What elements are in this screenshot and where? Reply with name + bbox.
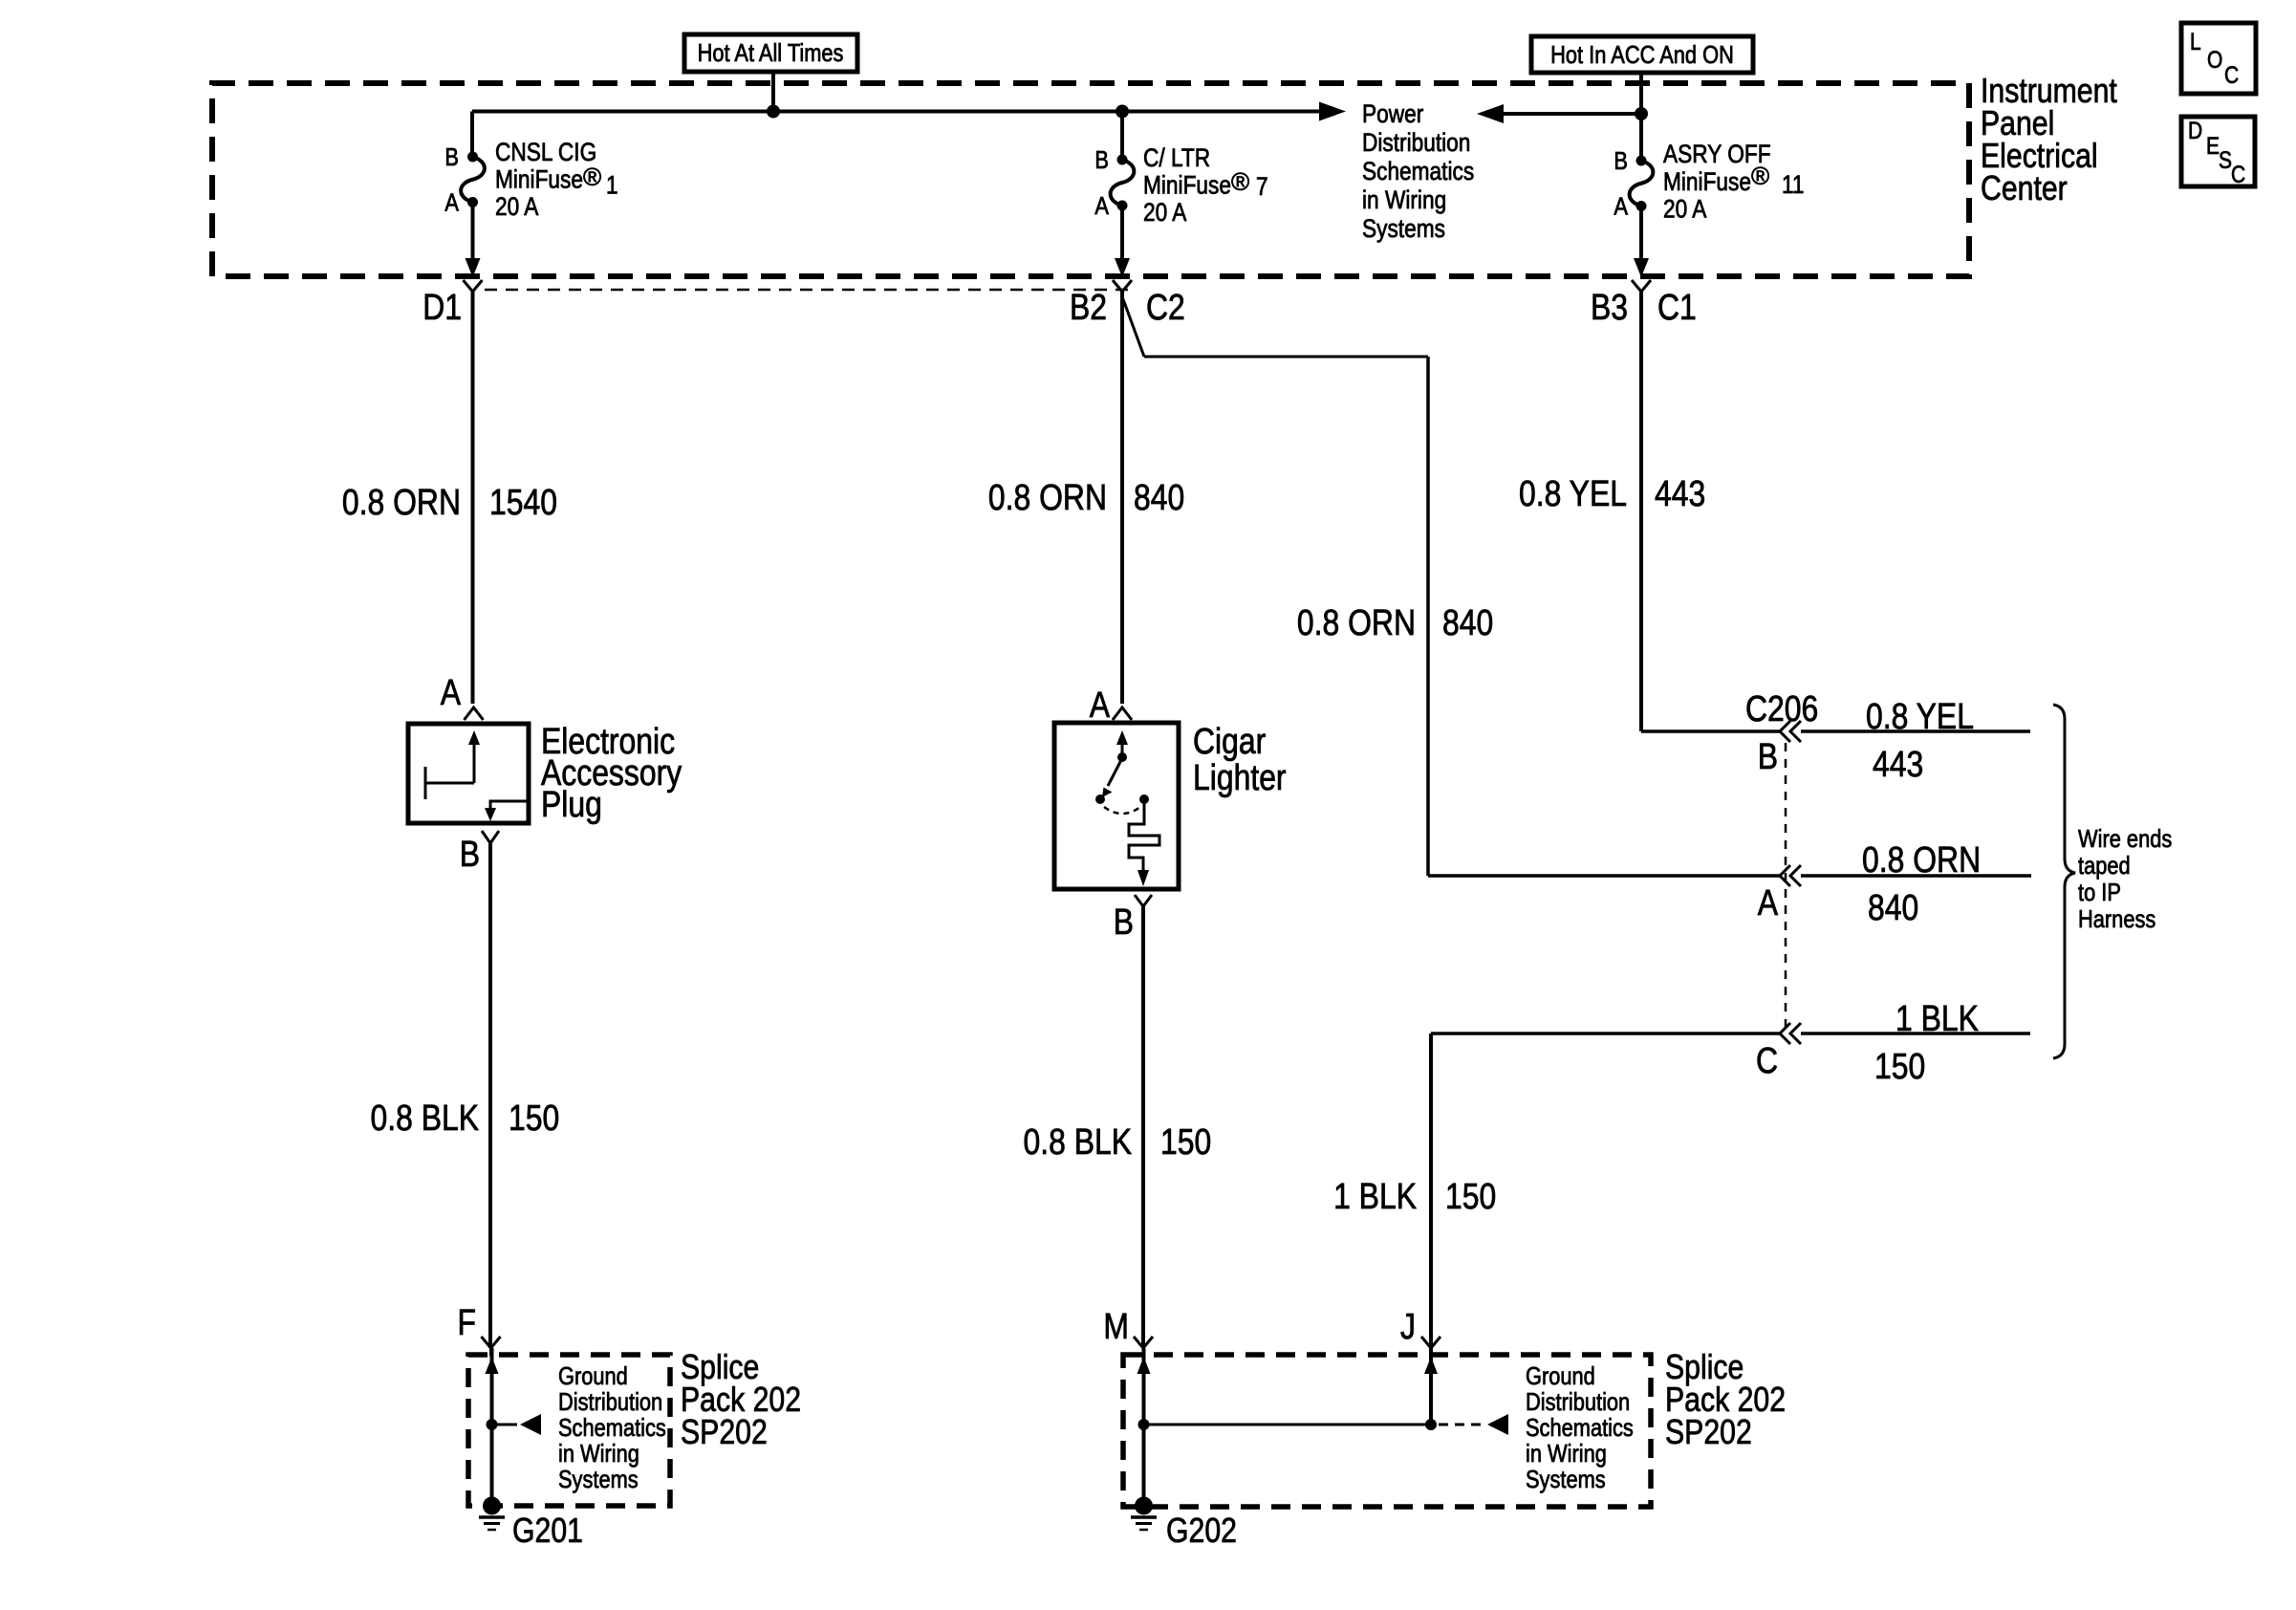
connector C206 cavity A chevrons [1780, 865, 1790, 886]
svg-text:L: L [2190, 28, 2201, 54]
connector C206 cavity B chevrons [1780, 721, 1790, 742]
node splice junction J [1425, 1419, 1437, 1430]
Cigar Lighter box [1054, 723, 1179, 889]
wire splice joining [1144, 1424, 1432, 1426]
fuse CNSL CIG MiniFuse 1 [461, 157, 485, 203]
connector Y at plug B [482, 831, 490, 843]
plug internal contact arrow [473, 744, 476, 783]
wire fuse 7 to connector C2 [1120, 206, 1124, 260]
svg-text:840: 840 [1442, 602, 1493, 642]
connector F [482, 1337, 491, 1348]
svg-text:11: 11 [1782, 170, 1805, 199]
Instrument Panel Electrical Center dashed box [212, 83, 1969, 276]
svg-text:C: C [1756, 1040, 1778, 1080]
wire 0.8 BLK 150 (left) [488, 843, 492, 1348]
svg-text:MiniFuse: MiniFuse [1143, 171, 1231, 200]
svg-text:0.8 ORN: 0.8 ORN [1297, 602, 1416, 642]
svg-text:443: 443 [1873, 744, 1923, 784]
svg-text:Schematics: Schematics [1526, 1414, 1634, 1442]
svg-text:1 BLK: 1 BLK [1895, 998, 1979, 1038]
svg-text:B: B [1758, 736, 1778, 776]
wire branch vertical 0.8 ORN 840 [1426, 357, 1430, 876]
svg-text:CNSL CIG: CNSL CIG [495, 138, 596, 166]
svg-text:Center: Center [1981, 170, 2068, 208]
svg-text:O: O [2207, 46, 2222, 73]
svg-text:A: A [441, 672, 462, 712]
svg-text:S: S [2219, 146, 2232, 173]
svg-text:in Wiring: in Wiring [1526, 1440, 1607, 1468]
svg-text:443: 443 [1655, 473, 1705, 513]
svg-text:B2: B2 [1070, 287, 1107, 327]
C206 dashed connector body [1785, 743, 1787, 1033]
bus wire Hot At All Times feed [472, 110, 1324, 114]
connector M [1134, 1337, 1143, 1348]
wire inside right splice box (J) [1429, 1348, 1433, 1425]
svg-text:C1: C1 [1657, 287, 1697, 327]
arrow into C1 [1634, 258, 1649, 277]
wire fuse 11 to connector C1 [1639, 207, 1643, 261]
node junction below Hot In ACC And ON [1635, 107, 1648, 120]
Hot In ACC And ON box [1531, 36, 1753, 73]
svg-text:MiniFuse: MiniFuse [495, 165, 583, 194]
svg-text:C206: C206 [1745, 688, 1818, 729]
svg-text:B: B [1114, 902, 1134, 942]
fuse ASRY OFF MiniFuse 11 [1630, 161, 1654, 207]
svg-text:A: A [1614, 193, 1628, 221]
svg-text:150: 150 [509, 1098, 559, 1138]
wire C206 B stub [1801, 729, 2030, 733]
svg-text:A: A [1094, 192, 1109, 220]
arrow into C2 [1115, 258, 1130, 277]
svg-text:1 BLK: 1 BLK [1333, 1176, 1417, 1216]
svg-text:B: B [1094, 146, 1109, 174]
svg-text:150: 150 [1160, 1121, 1211, 1162]
svg-text:A: A [1090, 685, 1111, 725]
svg-text:F: F [458, 1302, 476, 1342]
connector D1 [464, 280, 473, 292]
Splice Pack SP202 dashed box (left) [468, 1355, 670, 1506]
svg-text:0.8 ORN: 0.8 ORN [988, 477, 1107, 517]
node junction at bus above C/LTR fuse [1116, 105, 1129, 119]
svg-text:C/ LTR: C/ LTR [1143, 143, 1210, 172]
connector strip dashed line [485, 289, 1130, 292]
svg-text:840: 840 [1134, 477, 1184, 517]
node splice junction (left) [487, 1419, 498, 1430]
arrow to Power Distribution Schematics (right) [1319, 102, 1346, 121]
connector B2 C2 [1113, 280, 1122, 292]
node splice junction M [1138, 1419, 1150, 1430]
svg-text:Systems: Systems [1362, 214, 1445, 243]
svg-text:Ground: Ground [558, 1362, 628, 1390]
svg-text:SP202: SP202 [681, 1414, 768, 1452]
cigar switch dashed travel arc [1104, 807, 1140, 814]
arrow up inside right splice box (M) [1137, 1357, 1151, 1374]
svg-text:in Wiring: in Wiring [1362, 185, 1446, 214]
svg-text:®: ® [1751, 162, 1769, 190]
svg-text:taped: taped [2078, 852, 2131, 880]
plug internal contact bar [424, 767, 427, 799]
svg-text:1540: 1540 [489, 482, 557, 522]
connector caret at cigar A [1113, 707, 1132, 720]
svg-text:A: A [444, 189, 459, 217]
svg-text:20 A: 20 A [1143, 198, 1187, 227]
svg-text:A: A [1758, 882, 1779, 923]
cigar switch contact dot left [1095, 794, 1105, 804]
wire 0.8 YEL 443 [1639, 292, 1643, 731]
wire C206 A stub [1801, 874, 2031, 878]
svg-text:Harness: Harness [2078, 905, 2155, 933]
connector J [1421, 1337, 1431, 1348]
svg-text:Systems: Systems [558, 1466, 639, 1493]
svg-text:0.8 BLK: 0.8 BLK [370, 1098, 479, 1138]
LOC reference box [2181, 23, 2256, 94]
svg-text:Systems: Systems [1526, 1466, 1606, 1493]
node junction at bus below Hot At All Times [767, 105, 780, 119]
svg-text:E: E [2206, 132, 2220, 159]
svg-text:Schematics: Schematics [558, 1414, 666, 1442]
arrow to Ground Distribution (left) [520, 1414, 541, 1435]
connector Y at cigar B [1135, 895, 1143, 906]
Splice Pack SP202 dashed box (right) [1123, 1355, 1651, 1507]
svg-text:840: 840 [1868, 887, 1918, 927]
ground G201 [483, 1497, 501, 1515]
arrow to Power Distribution Schematics (left) [1477, 104, 1504, 123]
svg-text:B: B [460, 834, 480, 874]
svg-text:Cigar: Cigar [1193, 721, 1267, 761]
wire branch from C2 diagonal [1123, 299, 1144, 357]
svg-text:0.8 BLK: 0.8 BLK [1023, 1121, 1132, 1162]
arrow up inside left splice box [486, 1357, 499, 1374]
svg-text:®: ® [1231, 167, 1249, 196]
wire branch horizontal to x1494 [1144, 356, 1428, 359]
arrow into D1 [466, 258, 481, 277]
svg-text:0.8 YEL: 0.8 YEL [1866, 696, 1974, 736]
svg-text:20 A: 20 A [495, 192, 539, 221]
svg-text:Distribution: Distribution [1362, 128, 1470, 157]
arrow up inside right splice box (J) [1424, 1357, 1438, 1374]
wire bus down to fuse 1 [470, 112, 474, 158]
svg-text:Schematics: Schematics [1362, 157, 1474, 185]
plug internal output path [490, 801, 529, 809]
svg-text:0.8 ORN: 0.8 ORN [342, 482, 461, 522]
svg-text:B3: B3 [1591, 287, 1628, 327]
svg-text:J: J [1400, 1306, 1416, 1346]
svg-text:G202: G202 [1166, 1512, 1237, 1551]
wire YEL to C206 B [1641, 729, 1780, 733]
svg-text:C: C [2224, 61, 2239, 88]
svg-text:Hot At All Times: Hot At All Times [698, 39, 844, 67]
svg-text:Power: Power [1362, 99, 1423, 128]
svg-text:Distribution: Distribution [558, 1388, 662, 1416]
DESC reference box [2181, 117, 2255, 186]
wire ORN to C206 A [1428, 874, 1780, 878]
wire bus down to fuse 7 [1120, 112, 1124, 161]
svg-text:SP202: SP202 [1665, 1414, 1752, 1452]
svg-text:C2: C2 [1146, 287, 1185, 327]
wire fuse 1 to connector D1 [471, 203, 475, 261]
fuse C/LTR MiniFuse 7 [1111, 160, 1135, 206]
svg-text:MiniFuse: MiniFuse [1663, 167, 1751, 196]
svg-text:150: 150 [1445, 1176, 1496, 1216]
svg-text:D1: D1 [422, 287, 462, 327]
svg-text:M: M [1103, 1306, 1129, 1346]
svg-text:Distribution: Distribution [1526, 1388, 1630, 1416]
wire C206 C stub [1801, 1032, 2030, 1035]
cigar heating element [1129, 799, 1159, 871]
svg-text:Ground: Ground [1526, 1362, 1595, 1390]
wire from Hot At All Times box down to bus [771, 72, 775, 111]
svg-text:Lighter: Lighter [1193, 757, 1287, 797]
ground G202 [1135, 1497, 1153, 1515]
wire 0.8 ORN 840 [1120, 292, 1124, 704]
wire inside left splice box [490, 1348, 494, 1506]
svg-text:20 A: 20 A [1663, 195, 1707, 224]
Electronic Accessory Plug box [408, 724, 529, 823]
svg-text:Plug: Plug [541, 784, 602, 824]
arrow to Ground Distribution (right) [1487, 1414, 1508, 1435]
cigar switch contact dot right [1139, 794, 1149, 804]
cigar internal top arrow [1121, 744, 1124, 757]
svg-text:®: ® [583, 163, 601, 191]
svg-text:in Wiring: in Wiring [558, 1440, 639, 1468]
cigar switch pivot dot [1117, 752, 1127, 762]
svg-text:7: 7 [1256, 172, 1268, 201]
svg-text:150: 150 [1874, 1046, 1925, 1086]
wire 1 BLK 150 down to J [1429, 1033, 1433, 1348]
connector caret at plug A [465, 707, 484, 720]
svg-text:Hot In ACC And ON: Hot In ACC And ON [1550, 41, 1734, 69]
connector B3 C1 [1632, 280, 1641, 292]
wire BLK to C206 C [1431, 1032, 1780, 1035]
svg-text:1: 1 [606, 171, 618, 200]
splice reference line (left) [497, 1424, 517, 1426]
brace wire ends taped [2053, 705, 2075, 1058]
wire 0.8 BLK 150 (middle) [1141, 906, 1145, 1348]
svg-text:0.8 YEL: 0.8 YEL [1519, 473, 1627, 513]
Hot At All Times box [684, 34, 857, 72]
connector C206 cavity C chevrons [1780, 1023, 1790, 1044]
wire inside right splice box (M) [1142, 1348, 1146, 1506]
svg-text:0.8 ORN: 0.8 ORN [1862, 839, 1981, 880]
splice reference dashed line (right) [1439, 1424, 1484, 1426]
cigar switch arm [1108, 758, 1122, 786]
svg-text:B: B [1614, 147, 1628, 175]
svg-text:to IP: to IP [2078, 879, 2121, 906]
svg-text:B: B [444, 143, 459, 171]
wire 0.8 ORN 1540 [471, 292, 475, 704]
svg-text:C: C [2231, 161, 2245, 187]
svg-text:D: D [2188, 117, 2202, 143]
wire from Hot In ACC And ON box down [1639, 73, 1643, 161]
svg-text:Wire ends: Wire ends [2078, 825, 2172, 853]
svg-text:G201: G201 [512, 1512, 583, 1551]
wire to Power Distribution Schematics (left arrow) [1503, 112, 1641, 116]
